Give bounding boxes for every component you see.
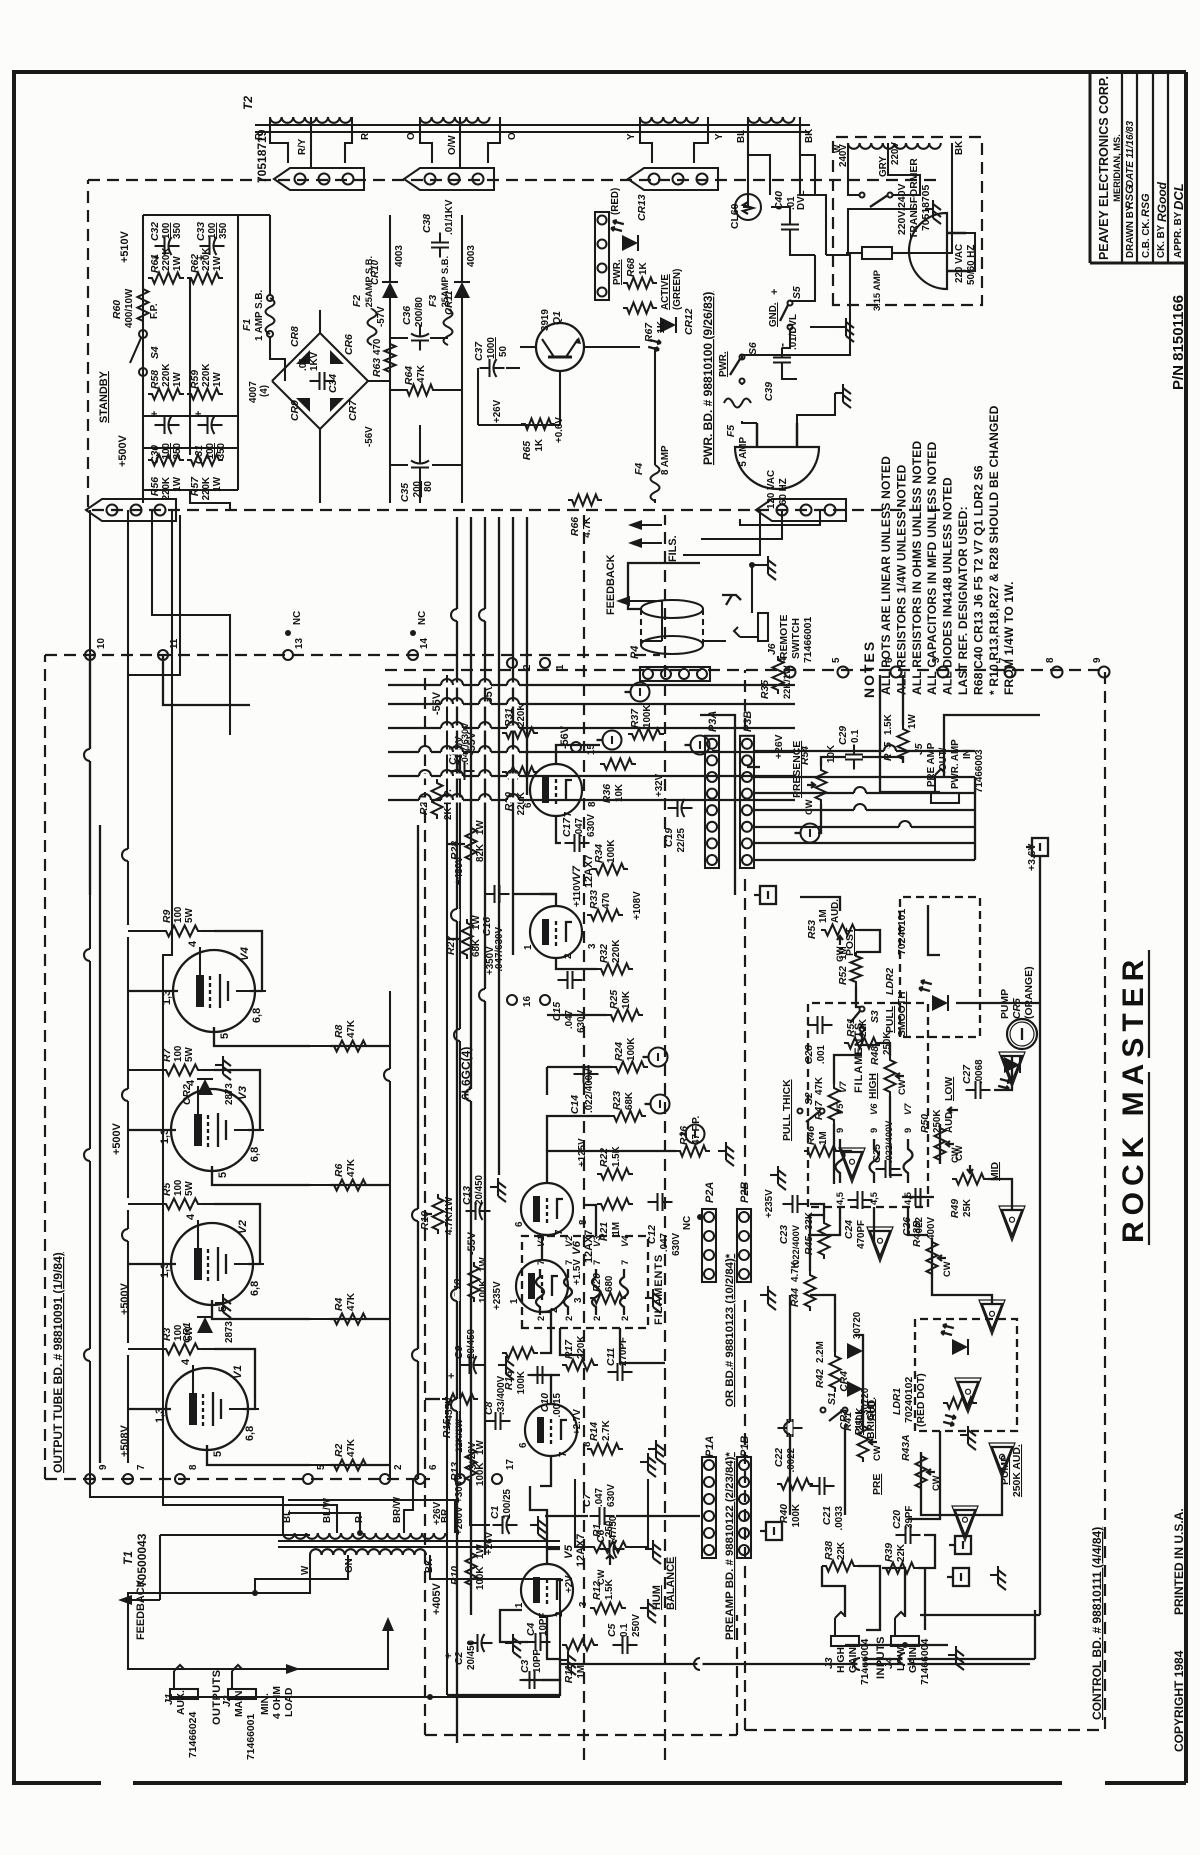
svg-text:11: 11	[169, 638, 180, 649]
hops p3 wires	[854, 808, 866, 813]
svg-text:S2: S2	[804, 1092, 815, 1105]
svg-text:P/N 81501166: P/N 81501166	[1170, 295, 1187, 390]
svg-text:100: 100	[173, 1045, 184, 1062]
resistor R64 47K	[403, 385, 437, 396]
svg-text:C36: C36	[402, 306, 413, 325]
svg-text:C5: C5	[607, 1623, 618, 1637]
LED CR5 diode	[1004, 1057, 1020, 1073]
LED CR13 PWR RED	[622, 235, 638, 251]
svg-text:60 HZ: 60 HZ	[778, 478, 789, 505]
filament box V1-V4	[522, 1236, 648, 1328]
svg-text:R6: R6	[334, 1163, 345, 1177]
tube V6B	[521, 1183, 573, 1235]
svg-text:1.5K: 1.5K	[604, 1579, 615, 1600]
capacitor C36 200/80	[419, 341, 421, 351]
svg-text:R38: R38	[824, 1541, 835, 1560]
svg-text:2: 2	[536, 1316, 546, 1321]
svg-text:J5: J5	[914, 743, 925, 755]
svg-text:R43B: R43B	[912, 1220, 923, 1247]
output board pin contacts top edge	[85, 1474, 95, 1484]
svg-text:R23: R23	[612, 1091, 623, 1110]
svg-text:50: 50	[498, 346, 509, 357]
svg-text:DRAWN BY: DRAWN BY	[1125, 204, 1136, 258]
connector P1B strip	[737, 1457, 751, 1558]
svg-text:220K: 220K	[161, 364, 172, 387]
resistor R68 1K	[623, 278, 657, 289]
capacitor C32 100/350	[155, 245, 165, 247]
switch S1 pull bright	[821, 1408, 826, 1413]
svg-text:HIGH: HIGH	[836, 1647, 847, 1673]
svg-text:22K: 22K	[896, 1544, 907, 1562]
svg-text:INPUTS: INPUTS	[875, 1636, 887, 1679]
svg-text:CW: CW	[954, 1145, 964, 1161]
svg-text:1 AMP S.B.: 1 AMP S.B.	[254, 290, 265, 341]
svg-text:PULL: PULL	[885, 1005, 896, 1033]
svg-text:R61: R61	[150, 254, 161, 273]
wire preamp B+ rail	[446, 675, 448, 1695]
svg-text:S5: S5	[792, 286, 803, 299]
svg-text:R8: R8	[334, 1024, 345, 1038]
capacitor C24 470PF	[848, 1199, 858, 1201]
svg-text:CR6: CR6	[344, 334, 355, 355]
svg-text:V3: V3	[237, 1085, 249, 1100]
resistor R14 2.7K	[587, 1444, 623, 1455]
resistor R15 22K/1W	[442, 1394, 478, 1405]
svg-text:68K: 68K	[471, 939, 482, 957]
svg-text:CR5: CR5	[1012, 998, 1023, 1019]
svg-text:16: 16	[522, 996, 533, 1007]
tube V4 pin wires	[199, 947, 201, 975]
svg-text:12AX7: 12AX7	[575, 1534, 587, 1567]
power board outline	[88, 180, 940, 510]
svg-text:CR8: CR8	[290, 326, 301, 347]
svg-text:+: +	[193, 411, 205, 417]
svg-text:NC: NC	[682, 1216, 693, 1230]
svg-text:C34: C34	[328, 374, 339, 393]
triangle flags mid	[1002, 1056, 1023, 1082]
svg-text:PWR.: PWR.	[612, 259, 623, 285]
svg-text:V7: V7	[838, 1081, 848, 1093]
tube V3 pin wires	[197, 1086, 199, 1114]
resistor R19 4.7K/1W	[433, 1194, 444, 1234]
svg-text:CONTROL BD. # 98810111 (4/4/84: CONTROL BD. # 98810111 (4/4/84)	[1090, 1527, 1104, 1720]
svg-text:0.1: 0.1	[850, 729, 861, 743]
svg-text:V6: V6	[869, 1103, 879, 1115]
svg-text:C21: C21	[822, 1506, 833, 1525]
svg-text:(4): (4)	[259, 385, 270, 397]
wire hops texture	[88, 1349, 93, 1361]
tube V2 pin wires	[197, 1220, 199, 1248]
filament winding V6	[870, 1139, 879, 1183]
resistor R58 220K 1W	[148, 389, 184, 400]
svg-text:1W: 1W	[212, 256, 223, 271]
capacitor C27 .0068	[966, 1089, 976, 1091]
svg-text:2.7K: 2.7K	[601, 1420, 612, 1441]
svg-text:R40: R40	[779, 1504, 790, 1523]
svg-text:F3: F3	[428, 295, 439, 307]
svg-text:FILAMENTS: FILAMENTS	[653, 1254, 665, 1325]
fuse F5 5AMP	[724, 399, 751, 408]
svg-text:+510V: +510V	[119, 230, 131, 263]
svg-text:.047: .047	[574, 817, 585, 837]
svg-text:W: W	[832, 144, 842, 153]
pot R43B 250K	[927, 1238, 938, 1278]
resistor R52 1M	[851, 952, 862, 986]
svg-text:C2: C2	[454, 1651, 465, 1665]
svg-text:-: -	[775, 343, 789, 347]
T1 primary winding	[283, 1533, 295, 1539]
svg-text:R4: R4	[334, 1297, 345, 1311]
svg-text:10K: 10K	[826, 745, 837, 763]
svg-text:100: 100	[173, 1179, 184, 1196]
capacitor C19 22/25	[668, 807, 678, 809]
svg-text:6: 6	[884, 657, 895, 663]
svg-text:10K: 10K	[621, 991, 632, 1009]
svg-text:200: 200	[412, 480, 423, 497]
resistor R46 1M	[804, 1146, 840, 1157]
svg-text:GN: GN	[344, 1558, 355, 1573]
connector P-R (3 pin)	[274, 168, 364, 190]
svg-text:1W: 1W	[478, 1257, 489, 1272]
svg-text:6: 6	[518, 1442, 529, 1448]
svg-text:ROCK MASTER: ROCK MASTER	[1117, 954, 1150, 1243]
svg-text:+108V: +108V	[632, 891, 643, 920]
wire fils box links	[560, 1328, 584, 1355]
svg-text:2.2M: 2.2M	[815, 1341, 826, 1363]
wire CR11 net	[461, 298, 463, 503]
svg-text:O: O	[406, 132, 417, 140]
svg-text:P1B: P1B	[739, 1436, 751, 1457]
svg-text:+26V: +26V	[432, 1501, 443, 1525]
presence pot R54 10K	[816, 766, 827, 804]
svg-text:R52: R52	[838, 966, 849, 985]
svg-text:100K: 100K	[475, 1567, 486, 1590]
power tube V2 6L6	[171, 1223, 253, 1305]
tube V6A	[516, 1260, 568, 1312]
svg-text:SMOOTH: SMOOTH	[897, 991, 908, 1037]
svg-text:+508V: +508V	[119, 1424, 131, 1457]
svg-text:CW: CW	[804, 799, 814, 815]
resistor R10 100K 1W	[466, 1549, 477, 1589]
svg-text:R44: R44	[790, 1288, 801, 1307]
mid pot R49 25K	[952, 1174, 988, 1185]
svg-text:.0033: .0033	[834, 1505, 845, 1530]
capacitor C39 .01/DVL	[781, 363, 783, 373]
svg-text:4: 4	[778, 657, 789, 663]
svg-text:.01: .01	[298, 357, 309, 371]
svg-text:8: 8	[188, 1464, 199, 1470]
preamp long rail C5	[560, 1663, 1030, 1665]
svg-text:220 VAC: 220 VAC	[954, 244, 965, 283]
svg-text:4,5: 4,5	[869, 1192, 879, 1205]
wire F1 to 510 node	[269, 215, 271, 295]
svg-text:250K AUD.: 250K AUD.	[1012, 1444, 1023, 1497]
AC plug 120V	[735, 447, 819, 489]
svg-text:V7: V7	[903, 1103, 913, 1115]
resistor R23 68K	[610, 1111, 646, 1122]
svg-text:.0068: .0068	[974, 1059, 985, 1084]
resistor R40 100K	[777, 1479, 813, 1490]
jack J4 low gain	[891, 1612, 919, 1646]
svg-text:+26V: +26V	[492, 399, 503, 423]
svg-text:39PF: 39PF	[904, 1506, 915, 1529]
svg-text:Y: Y	[714, 133, 725, 140]
diode CR4 30720	[847, 1343, 863, 1359]
winding Y taps	[640, 117, 652, 163]
svg-text:BK: BK	[804, 129, 815, 143]
socket pin symbols preamp	[649, 1048, 668, 1067]
svg-text:+: +	[769, 289, 781, 295]
svg-text:9: 9	[1092, 657, 1103, 663]
svg-text:4,5: 4,5	[903, 1192, 913, 1205]
svg-text:+26V: +26V	[774, 734, 785, 759]
svg-text:80: 80	[423, 480, 434, 491]
bus wires to P4 fils	[683, 510, 760, 555]
resistor R18 100K 1W	[469, 1262, 480, 1302]
resistor R60 400/10W FP	[138, 285, 149, 325]
svg-text:14: 14	[419, 638, 430, 649]
svg-text:.047: .047	[594, 1487, 605, 1507]
svg-text:PWR. BD. # 98810100 (9/26/83): PWR. BD. # 98810100 (9/26/83)	[701, 292, 715, 465]
wire -57 rail	[389, 298, 391, 503]
resistor R11 1M	[562, 1640, 598, 1651]
svg-text:S1: S1	[827, 1392, 838, 1405]
svg-text:R59: R59	[190, 370, 201, 389]
fuse F1 1AMP SB	[266, 298, 275, 334]
LDR1 photoresistor	[943, 1398, 977, 1409]
triangle flag a	[842, 1152, 863, 1178]
svg-text:AUX.: AUX.	[176, 1690, 187, 1715]
svg-text:630V: 630V	[671, 1233, 682, 1256]
svg-text:ALL RESISTORS IN OHMS UNLESS N: ALL RESISTORS IN OHMS UNLESS NOTED	[910, 440, 924, 695]
svg-text:17: 17	[505, 1459, 516, 1470]
wires 220V box	[848, 143, 860, 195]
svg-text:.47/50: .47/50	[608, 1515, 619, 1543]
filament winding V7	[904, 1139, 913, 1183]
svg-text:+: +	[149, 411, 161, 417]
svg-text:.25AMP S.B.: .25AMP S.B.	[440, 256, 450, 310]
svg-text:.0022: .0022	[786, 1447, 797, 1472]
svg-text:1W: 1W	[212, 476, 223, 491]
wire control board horizontals	[789, 1295, 791, 1515]
svg-text:CR7: CR7	[348, 399, 359, 421]
resistor R67 1K	[623, 303, 657, 314]
resistor R16 100K	[502, 1348, 538, 1359]
svg-text:13: 13	[294, 638, 305, 649]
220V switch	[860, 193, 865, 198]
svg-text:100K: 100K	[516, 1371, 527, 1394]
svg-text:C16: C16	[482, 917, 493, 936]
svg-text:C29: C29	[838, 726, 849, 745]
wire 26V rail	[478, 424, 560, 426]
svg-text:3.15 AMP: 3.15 AMP	[872, 270, 882, 311]
svg-text:220K: 220K	[161, 248, 172, 271]
capacitor C5 0.1 250V	[613, 1644, 623, 1646]
svg-text:C28: C28	[804, 1045, 815, 1064]
svg-text:F4: F4	[634, 463, 645, 475]
remote switch J6	[734, 613, 768, 641]
svg-text:BK: BK	[954, 141, 965, 155]
svg-text:FILAMENTS: FILAMENTS	[853, 1022, 865, 1093]
wire output tubes grids	[330, 1464, 390, 1466]
capacitor C8 .33/400V	[486, 1420, 496, 1422]
svg-text:C4: C4	[526, 1622, 537, 1636]
wire bundle verticals	[388, 799, 795, 801]
wire crossing bundle 1	[89, 655, 91, 895]
svg-text:F.P.: F.P.	[149, 303, 160, 319]
filament V5V6V7 box	[808, 1003, 928, 1207]
svg-text:(RED): (RED)	[610, 188, 621, 215]
svg-text:F2: F2	[352, 295, 363, 307]
preamp edge pins 4-9	[785, 667, 796, 678]
svg-text:C24: C24	[844, 1220, 855, 1239]
svg-text:100K: 100K	[606, 840, 617, 863]
svg-text:LOAD: LOAD	[284, 1687, 295, 1717]
svg-text:1M: 1M	[576, 1665, 587, 1679]
svg-text:4007: 4007	[248, 381, 259, 403]
wire bundle hops	[451, 798, 463, 803]
wire control board bottom rail	[1039, 855, 1041, 1615]
svg-text:R33: R33	[589, 890, 600, 909]
svg-text:2: 2	[393, 1464, 404, 1470]
svg-text:CW: CW	[872, 1445, 882, 1461]
svg-text:+0.6V: +0.6V	[554, 417, 565, 443]
svg-text:T1: T1	[121, 1551, 135, 1565]
capacitor C9 20/450	[460, 1364, 470, 1366]
diode CR2 2873	[197, 1079, 213, 1095]
svg-text:6: 6	[514, 1221, 525, 1227]
preamp board outline	[424, 670, 426, 1735]
svg-text:R48: R48	[870, 1046, 881, 1065]
svg-text:1: 1	[514, 1602, 525, 1608]
svg-text:6,8: 6,8	[244, 1426, 256, 1441]
svg-text:C19: C19	[664, 828, 675, 847]
svg-text:LAST REF. DESIGNATOR USED:: LAST REF. DESIGNATOR USED:	[956, 506, 970, 695]
capacitor C2 20/450	[468, 1642, 478, 1644]
220V transformer winding	[848, 143, 860, 149]
jack ground rail	[170, 1696, 560, 1698]
svg-text:7: 7	[558, 1451, 569, 1457]
capacitor C30 100/350	[155, 424, 165, 426]
svg-text:PULL THICK: PULL THICK	[782, 1079, 793, 1141]
ground R14	[640, 1461, 648, 1463]
svg-text:+260V: +260V	[454, 1506, 465, 1535]
jack J3 high gain	[831, 1612, 859, 1646]
svg-text:OUTPUT TUBE BD. # 98810091 (1/: OUTPUT TUBE BD. # 98810091 (1/9/84)	[51, 1252, 65, 1473]
resistor R31 220K	[502, 728, 538, 739]
svg-text:2: 2	[564, 1316, 574, 1321]
svg-text:R14: R14	[589, 1422, 600, 1441]
svg-text:1000: 1000	[486, 337, 497, 359]
svg-text:220V: 220V	[890, 142, 901, 165]
svg-text:DCL: DCL	[1171, 183, 1186, 210]
svg-text:R62: R62	[190, 254, 201, 273]
capacitor C22 .0022	[778, 1427, 788, 1429]
power tube V1 6L6	[166, 1368, 248, 1450]
svg-text:PRE AMP: PRE AMP	[926, 742, 937, 787]
svg-text:LOW: LOW	[944, 1077, 955, 1101]
svg-text:R35: R35	[760, 680, 771, 699]
control board outline	[380, 670, 1105, 1730]
svg-text:+125V: +125V	[577, 1138, 588, 1167]
svg-text:P1A: P1A	[704, 1436, 716, 1457]
svg-text:PREAMP BD. # 98810122 (2/23/84: PREAMP BD. # 98810122 (2/23/84)*	[724, 1452, 736, 1640]
transformer T2 winding Y	[640, 117, 652, 123]
svg-text:(RED DOT): (RED DOT)	[916, 1373, 927, 1427]
diode CR11 4003	[454, 282, 470, 298]
svg-text:+405V: +405V	[431, 1582, 443, 1615]
svg-text:R54: R54	[800, 746, 811, 765]
svg-text:470: 470	[601, 892, 612, 909]
connector P-O (3 pin)	[404, 168, 494, 190]
switch S5 GND	[788, 325, 793, 330]
svg-text:1M: 1M	[818, 1131, 829, 1145]
svg-text:100: 100	[161, 222, 172, 239]
svg-text:71466024: 71466024	[188, 1712, 199, 1758]
svg-text:O: O	[507, 132, 518, 140]
connector P2A strip	[702, 1209, 716, 1282]
svg-text:4: 4	[185, 1214, 197, 1220]
output bd bottom rails	[389, 991, 391, 1479]
wire screen feeds	[214, 1349, 255, 1409]
resistor R25 10K	[607, 1010, 643, 1021]
resistor R36 10K	[600, 759, 636, 770]
filament winding V5	[836, 1139, 845, 1183]
svg-text:R67: R67	[644, 322, 655, 342]
capacitor C26 .022 400V	[906, 1196, 916, 1198]
output board grid rail 2	[417, 825, 419, 1479]
svg-text:70240101: 70240101	[897, 909, 908, 955]
thermistor CL60	[735, 194, 761, 220]
feedback return wires	[128, 1593, 310, 1669]
LDR1 LED	[952, 1339, 968, 1355]
svg-text:5: 5	[316, 1464, 327, 1470]
resistor R21 1M	[597, 1199, 633, 1210]
svg-text:(ORANGE): (ORANGE)	[1024, 966, 1035, 1019]
LED pin strip (PWR/ACTIVE)	[595, 212, 609, 300]
svg-text:70518705: 70518705	[921, 185, 932, 231]
svg-text:250V: 250V	[631, 1614, 642, 1637]
label 16 15 pins	[507, 995, 517, 1005]
resistor R42 2.2M	[830, 1352, 841, 1392]
output board pin contacts bottom edge	[85, 650, 95, 660]
svg-text:2873: 2873	[224, 1083, 235, 1105]
wire fils v5v7 links	[808, 1207, 840, 1235]
resistor R26 47 FP	[676, 1146, 710, 1157]
svg-text:GND.: GND.	[768, 302, 779, 327]
wire node -56	[390, 389, 403, 391]
svg-text:CW: CW	[897, 1079, 907, 1095]
tube V7B	[530, 764, 582, 816]
svg-text:R27: R27	[446, 935, 457, 955]
svg-text:.001: .001	[816, 1044, 827, 1064]
svg-text:LDR1: LDR1	[892, 1388, 903, 1415]
transformer T2 winding BL-BK	[748, 117, 760, 123]
svg-text:+2.7V: +2.7V	[572, 1409, 583, 1435]
svg-text:AUD.: AUD.	[944, 1109, 955, 1133]
svg-text:3919: 3919	[540, 309, 551, 331]
svg-text:C17: C17	[562, 817, 573, 837]
svg-text:R68: R68	[626, 258, 637, 277]
svg-text:8: 8	[578, 1219, 589, 1225]
svg-text:1K: 1K	[534, 439, 545, 452]
svg-text:5W: 5W	[184, 1047, 195, 1062]
svg-text:J6: J6	[767, 643, 778, 655]
capacitor C35 200/80	[419, 468, 421, 478]
svg-text:47K: 47K	[416, 365, 427, 383]
svg-text:100K: 100K	[642, 705, 653, 728]
transformer T2 core	[255, 131, 810, 133]
